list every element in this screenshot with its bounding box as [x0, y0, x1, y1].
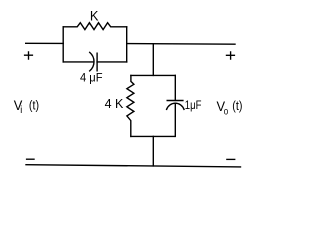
svg-text:4 μF: 4 μF: [80, 72, 103, 84]
svg-text:i: i: [20, 105, 22, 117]
svg-text:1μF: 1μF: [185, 99, 202, 112]
svg-text:4 K: 4 K: [105, 97, 124, 111]
svg-text:(t): (t): [29, 99, 39, 113]
svg-text:o: o: [224, 106, 228, 117]
svg-text:K: K: [90, 8, 99, 24]
svg-text:(t): (t): [232, 99, 242, 113]
